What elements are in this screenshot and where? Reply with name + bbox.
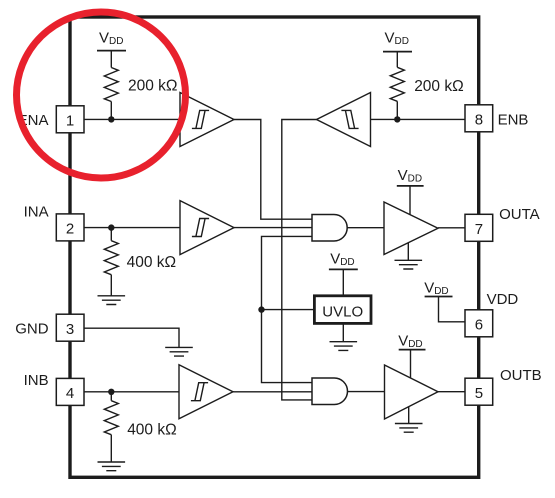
svg-text:200 kΩ: 200 kΩ [128,78,178,95]
wire AND B output to driver B [348,391,385,393]
svg-text:5: 5 [475,385,483,402]
wire ENB Schmitt output down to AND B bottom input [282,120,317,400]
wire VDD to UVLO [342,269,344,295]
AND gate B [312,378,348,405]
hysteresis glyph ENB [341,110,358,128]
UVLO block [314,296,371,324]
wire UVLO to ground [342,323,344,341]
svg-text:VDD: VDD [385,30,409,48]
ground (driver A) [395,260,423,269]
svg-text:VDD: VDD [99,30,123,48]
wire INB Schmitt output to AND B middle input [233,391,312,393]
driver buffer B [385,365,439,419]
wire INB node to resistor [110,392,112,401]
svg-text:1: 1 [66,112,74,129]
svg-text:INB: INB [24,372,49,389]
wire UVLO output to net [262,309,315,311]
svg-text:400 kΩ: 400 kΩ [127,421,177,438]
ground (GND pin) [165,347,193,356]
svg-text:VDD: VDD [487,291,519,308]
svg-text:GND: GND [15,321,49,338]
wire VDD to driver A [409,186,411,215]
pin 2 box [56,214,84,241]
svg-text:UVLO: UVLO [322,303,363,320]
AND gate A [312,215,347,242]
svg-text:VDD: VDD [398,333,422,351]
ground (UVLO) [330,342,358,351]
svg-text:ENB: ENB [498,112,529,129]
node ENA junction dot [108,116,114,122]
node ENB junction dot [394,116,400,122]
wire VDD bar to resistor R-ENA [110,51,112,68]
pin 6 box [465,310,493,337]
svg-text:6: 6 [475,316,483,333]
hysteresis glyph INB [191,383,208,401]
wire VDD to driver B [410,350,412,378]
op-amp U2 Schmitt buffer INA [180,201,234,255]
pin 7 box [465,214,493,241]
wire resistor to ground [110,275,112,296]
resistor 200k ENB [390,67,404,101]
annotation red circle [17,12,186,178]
node INB junction dot [108,389,114,395]
resistor 200k ENA [104,68,118,102]
VDD rail bar (driver A) [397,185,424,187]
VDD rail bar (UVLO) [329,268,358,270]
svg-text:OUTA: OUTA [499,206,540,223]
VDD rail bar (pin 6) [425,296,453,298]
wire INB pin4 to Schmitt input [84,391,179,393]
wire INA node to resistor [110,228,112,241]
pin 8 box [465,105,493,132]
svg-text:4: 4 [66,385,74,402]
svg-text:7: 7 [475,221,483,238]
svg-text:3: 3 [66,321,74,338]
wire INA Schmitt output to AND A middle input [234,227,312,229]
svg-text:VDD: VDD [398,167,422,185]
svg-text:2: 2 [66,221,74,238]
wire VDD bar to resistor R-ENB [396,52,398,68]
pin 4 box [56,378,84,405]
VDD rail bar (ENB pull-up) [383,51,412,53]
svg-text:VDD: VDD [424,280,448,298]
wire driver A to ground [407,243,409,261]
op-amp U1 Schmitt buffer ENA [180,93,234,147]
svg-text:OUTB: OUTB [500,367,542,384]
VDD rail bar (driver B) [399,349,426,351]
resistor 400k INA [104,241,118,275]
wire driver B output to pin5 [438,391,465,393]
wire GND pin3 to ground symbol [84,328,179,347]
node UVLO junction dot [258,306,264,312]
wire driver B to ground [408,407,410,424]
wire resistor to ground [110,435,112,462]
op-amp U3 Schmitt buffer INB [179,365,233,419]
svg-text:200 kΩ: 200 kΩ [414,78,464,95]
pin 3 box [56,314,84,341]
wire UVLO net: AND A bottom input down to AND B top input [262,236,313,382]
wire resistor to ENB node [396,101,398,119]
svg-text:INA: INA [24,204,49,221]
ground (INA resistor) [98,296,126,305]
pin 5 box [465,378,493,405]
pin 1 box [56,106,84,133]
node INA junction dot [108,224,114,230]
driver buffer A [384,202,438,255]
ground (driver B) [395,424,423,433]
wire ENA pin1 to Schmitt input [84,118,180,120]
wire AND A output to driver A [347,227,384,229]
svg-text:VDD: VDD [330,251,354,269]
svg-text:400 kΩ: 400 kΩ [127,254,177,271]
wire ENA Schmitt output to AND A top input [234,120,312,220]
hysteresis glyph ENA [192,110,209,128]
wire VDD bar to pin6 [439,297,466,322]
op-amp U4 Schmitt buffer ENB (left facing) [317,93,371,147]
wire INA pin2 to Schmitt input [84,227,180,229]
wire ENB pin8 to Schmitt input [371,118,466,120]
hysteresis glyph INA [192,219,209,237]
wire resistor to ENA node [110,102,112,120]
VDD rail bar (ENA pull-up) [97,50,126,52]
wire driver A output to pin7 [438,227,465,229]
svg-text:8: 8 [475,111,483,128]
ground (INB resistor) [98,462,126,471]
IC boundary [70,17,479,477]
resistor 400k INB [104,401,118,435]
